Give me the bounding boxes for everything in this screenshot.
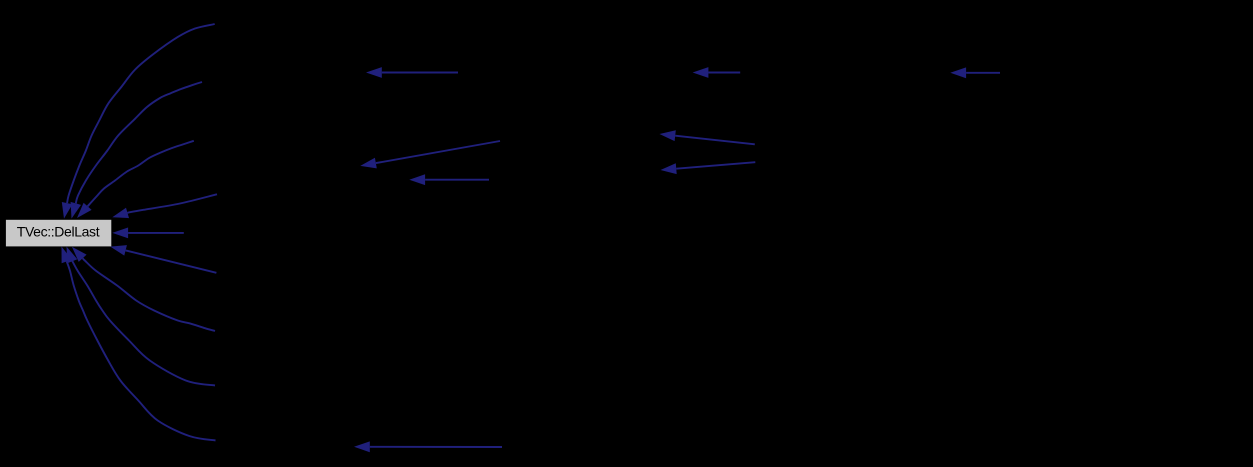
edge hidden rank3 arrow H (693, 67, 741, 78)
edge caller-2 to TVec::DelLast (middle top curve) (71, 82, 202, 219)
edge caller-5 to TVec::DelLast (horizontal) (112, 228, 184, 239)
svg-text:TVec::DelLast: TVec::DelLast (17, 224, 100, 240)
edge hidden rank2 arrow A (366, 67, 458, 78)
edge hidden rank2 diagonal C (360, 141, 500, 168)
edge hidden rank2 arrow G (354, 441, 502, 452)
edge caller-9 to TVec::DelLast (outer bottom curve) (62, 247, 216, 441)
edge hidden rank3 arrow E (660, 130, 755, 144)
edge caller-6 to TVec::DelLast (lower diagonal) (110, 245, 216, 273)
edge caller-8 to TVec::DelLast (middle bottom curve) (67, 247, 216, 386)
edge hidden rank4 arrow I (950, 67, 1000, 78)
edge caller-4 to TVec::DelLast (upper diagonal) (112, 194, 217, 218)
edge hidden rank2 arrow D (409, 174, 489, 185)
edge hidden rank3 arrow F (661, 162, 756, 174)
edge caller-1 to TVec::DelLast (outer top curve) (62, 24, 215, 219)
edge caller-3 to TVec::DelLast (inner top curve) (77, 141, 194, 218)
edge caller-7 to TVec::DelLast (inner bottom curve) (72, 247, 215, 331)
node TVec::DelLast (central node box) (6, 220, 111, 247)
